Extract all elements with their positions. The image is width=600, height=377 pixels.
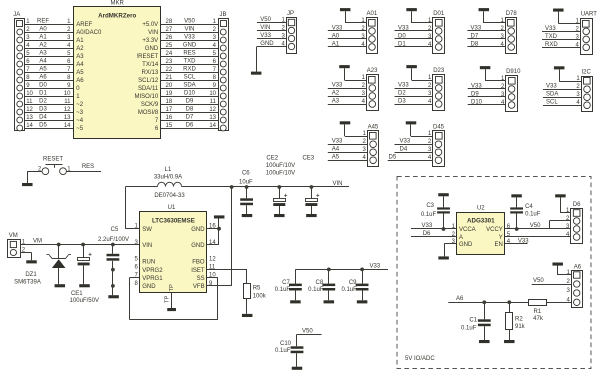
svg-text:A1: A1 bbox=[332, 41, 340, 47]
svg-text:SCL: SCL bbox=[546, 100, 558, 106]
svg-text:12: 12 bbox=[209, 107, 216, 113]
svg-text:D910: D910 bbox=[506, 69, 521, 75]
svg-text:91k: 91k bbox=[515, 324, 526, 330]
svg-text:D0: D0 bbox=[39, 82, 47, 88]
svg-text:D6: D6 bbox=[186, 122, 194, 128]
svg-text:RES: RES bbox=[82, 164, 94, 170]
svg-text:Y: Y bbox=[499, 235, 503, 241]
svg-text:10: 10 bbox=[26, 91, 33, 97]
svg-text:0.1uF: 0.1uF bbox=[275, 348, 291, 354]
svg-text:A23: A23 bbox=[367, 68, 378, 74]
svg-text:+5.0V: +5.0V bbox=[142, 22, 158, 28]
svg-text:A4: A4 bbox=[76, 62, 84, 68]
svg-text:RXD: RXD bbox=[183, 66, 196, 72]
svg-text:0.1uF: 0.1uF bbox=[461, 325, 477, 331]
svg-text:MISO/10: MISO/10 bbox=[135, 94, 159, 100]
svg-text:~2: ~2 bbox=[76, 102, 84, 108]
svg-text:+: + bbox=[316, 192, 320, 199]
svg-text:V33: V33 bbox=[400, 139, 411, 145]
svg-text:100k: 100k bbox=[253, 293, 267, 299]
svg-text:V33: V33 bbox=[332, 25, 343, 31]
svg-text:DE0704-33: DE0704-33 bbox=[154, 193, 185, 199]
svg-text:V50: V50 bbox=[184, 18, 195, 24]
svg-text:18: 18 bbox=[166, 99, 173, 105]
svg-text:V33: V33 bbox=[184, 34, 195, 40]
svg-text:V50: V50 bbox=[530, 223, 541, 229]
svg-text:SW: SW bbox=[142, 227, 152, 233]
svg-text:A0/DAC0: A0/DAC0 bbox=[76, 30, 102, 36]
svg-text:D4: D4 bbox=[39, 114, 47, 120]
svg-text:21: 21 bbox=[166, 75, 173, 81]
svg-text:C9: C9 bbox=[349, 280, 357, 286]
svg-text:100uF/50V: 100uF/50V bbox=[70, 298, 99, 304]
svg-text:22: 22 bbox=[166, 67, 173, 73]
svg-text:C1: C1 bbox=[469, 317, 477, 323]
svg-text:GND: GND bbox=[142, 284, 156, 290]
svg-text:VIN: VIN bbox=[148, 30, 158, 36]
svg-text:U2: U2 bbox=[477, 205, 485, 211]
svg-text:10: 10 bbox=[64, 91, 71, 97]
svg-text:0.1uF: 0.1uF bbox=[341, 287, 357, 293]
svg-text:JP: JP bbox=[287, 11, 294, 17]
svg-text:A5: A5 bbox=[332, 155, 340, 161]
svg-text:D10: D10 bbox=[471, 99, 483, 105]
svg-text:TX/14: TX/14 bbox=[142, 62, 159, 68]
svg-text:16: 16 bbox=[166, 115, 173, 121]
svg-text:SS: SS bbox=[197, 276, 205, 282]
svg-text:CE1: CE1 bbox=[71, 291, 83, 297]
svg-text:SM6T39A: SM6T39A bbox=[14, 279, 41, 285]
svg-text:VIN: VIN bbox=[184, 26, 194, 32]
svg-text:A4: A4 bbox=[332, 147, 340, 153]
svg-text:GND: GND bbox=[145, 46, 159, 52]
svg-text:VM: VM bbox=[9, 233, 18, 239]
svg-text:ADG3301: ADG3301 bbox=[467, 218, 495, 225]
svg-text:C4: C4 bbox=[525, 204, 533, 210]
svg-text:23: 23 bbox=[166, 59, 173, 65]
svg-text:GND: GND bbox=[459, 242, 473, 248]
svg-text:A3: A3 bbox=[76, 54, 84, 60]
svg-text:R2: R2 bbox=[515, 316, 523, 322]
svg-text:D8: D8 bbox=[186, 106, 194, 112]
svg-text:13: 13 bbox=[209, 115, 216, 121]
svg-text:D9: D9 bbox=[186, 98, 194, 104]
svg-text:GND: GND bbox=[183, 42, 197, 48]
svg-text:VPRG2: VPRG2 bbox=[142, 268, 163, 274]
svg-text:L1: L1 bbox=[165, 167, 172, 173]
svg-text:AREF: AREF bbox=[76, 22, 92, 28]
svg-text:C7: C7 bbox=[282, 280, 290, 286]
svg-text:11: 11 bbox=[26, 99, 33, 105]
svg-text:SCL: SCL bbox=[184, 74, 196, 80]
svg-text:JB: JB bbox=[220, 12, 227, 18]
svg-text:15: 15 bbox=[166, 123, 173, 129]
svg-text:C5: C5 bbox=[111, 227, 119, 233]
svg-text:GND: GND bbox=[191, 243, 205, 249]
svg-text:0.1uF: 0.1uF bbox=[421, 212, 437, 218]
svg-text:D6: D6 bbox=[573, 202, 581, 208]
svg-text:A: A bbox=[459, 235, 463, 241]
svg-text:R1: R1 bbox=[533, 309, 541, 315]
svg-text:LTC3630EMSE: LTC3630EMSE bbox=[152, 217, 195, 224]
svg-text:ArdMKRZero: ArdMKRZero bbox=[98, 13, 136, 20]
svg-text:~4: ~4 bbox=[76, 118, 84, 124]
svg-text:C3: C3 bbox=[426, 203, 434, 209]
svg-text:D5: D5 bbox=[389, 155, 397, 161]
svg-text:TP: TP bbox=[169, 284, 175, 292]
svg-text:D78: D78 bbox=[506, 11, 518, 17]
svg-text:A4: A4 bbox=[39, 58, 47, 64]
svg-text:D1: D1 bbox=[398, 41, 406, 47]
svg-text:A6: A6 bbox=[456, 296, 464, 302]
svg-text:D2: D2 bbox=[39, 98, 47, 104]
svg-text:0.1uF: 0.1uF bbox=[308, 287, 324, 293]
svg-text:13: 13 bbox=[26, 115, 33, 121]
svg-text:A2: A2 bbox=[76, 46, 84, 52]
svg-text:DZ1: DZ1 bbox=[25, 272, 37, 278]
svg-text:CE3: CE3 bbox=[302, 156, 314, 162]
svg-text:TXD: TXD bbox=[184, 58, 197, 64]
svg-text:+3.3V: +3.3V bbox=[142, 38, 158, 44]
svg-text:VPRG1: VPRG1 bbox=[142, 276, 163, 282]
svg-text:5V IO/ADC: 5V IO/ADC bbox=[405, 356, 435, 362]
svg-text:GND: GND bbox=[260, 41, 274, 47]
svg-text:A6: A6 bbox=[574, 265, 582, 271]
svg-text:A2: A2 bbox=[39, 42, 47, 48]
svg-text:RXD: RXD bbox=[545, 42, 558, 48]
svg-text:14: 14 bbox=[209, 123, 216, 129]
svg-text:A1: A1 bbox=[39, 34, 47, 40]
svg-text:D6: D6 bbox=[423, 231, 431, 237]
svg-text:D8: D8 bbox=[471, 41, 479, 47]
svg-text:A0: A0 bbox=[332, 33, 340, 39]
svg-text:~5: ~5 bbox=[76, 126, 84, 132]
svg-text:I2C: I2C bbox=[582, 69, 592, 75]
svg-text:V50: V50 bbox=[302, 328, 313, 334]
svg-text:11: 11 bbox=[210, 99, 217, 105]
svg-text:12: 12 bbox=[209, 257, 216, 263]
svg-text:V50: V50 bbox=[260, 17, 271, 23]
svg-text:ISET: ISET bbox=[191, 268, 205, 274]
svg-text:12: 12 bbox=[26, 107, 33, 113]
svg-text:C8: C8 bbox=[316, 280, 324, 286]
svg-text:0.1uF: 0.1uF bbox=[275, 287, 291, 293]
svg-text:VIN: VIN bbox=[333, 181, 343, 187]
svg-text:JA: JA bbox=[13, 12, 20, 18]
svg-text:V33: V33 bbox=[332, 139, 343, 145]
svg-text:D10: D10 bbox=[184, 90, 196, 96]
svg-text:A5: A5 bbox=[39, 66, 47, 72]
svg-text:14: 14 bbox=[64, 123, 71, 129]
svg-text:MKR: MKR bbox=[111, 1, 125, 7]
svg-text:V33: V33 bbox=[546, 84, 557, 90]
svg-text:!RESET: !RESET bbox=[137, 54, 159, 60]
svg-text:V33: V33 bbox=[471, 83, 482, 89]
svg-text:D1: D1 bbox=[39, 90, 47, 96]
svg-text:V33: V33 bbox=[471, 25, 482, 31]
svg-text:EN: EN bbox=[494, 242, 502, 248]
svg-text:V33: V33 bbox=[260, 33, 271, 39]
svg-text:SCK/9: SCK/9 bbox=[141, 102, 159, 108]
svg-text:R5: R5 bbox=[253, 285, 261, 291]
svg-text:D4: D4 bbox=[400, 147, 408, 153]
svg-text:SDA: SDA bbox=[546, 92, 558, 98]
svg-text:A6: A6 bbox=[39, 74, 47, 80]
svg-text:100uF/10V: 100uF/10V bbox=[266, 171, 295, 177]
svg-text:12: 12 bbox=[64, 107, 71, 113]
svg-text:V33: V33 bbox=[422, 223, 433, 229]
svg-text:D2: D2 bbox=[398, 90, 406, 96]
svg-text:14: 14 bbox=[26, 123, 33, 129]
svg-text:19: 19 bbox=[166, 91, 173, 97]
svg-text:~3: ~3 bbox=[76, 110, 84, 116]
svg-text:10uF: 10uF bbox=[239, 180, 253, 186]
svg-text:+: + bbox=[284, 192, 288, 199]
svg-text:V33: V33 bbox=[518, 239, 529, 245]
svg-text:A1: A1 bbox=[76, 38, 84, 44]
svg-text:D23: D23 bbox=[433, 68, 445, 74]
svg-text:A45: A45 bbox=[368, 124, 379, 130]
svg-text:FBO: FBO bbox=[192, 260, 205, 266]
svg-text:28: 28 bbox=[166, 19, 173, 25]
svg-text:A3: A3 bbox=[39, 50, 47, 56]
svg-text:RUN: RUN bbox=[142, 260, 155, 266]
svg-text:V33: V33 bbox=[545, 26, 556, 32]
svg-text:TXD: TXD bbox=[545, 34, 558, 40]
svg-text:D01: D01 bbox=[433, 11, 445, 17]
svg-text:17: 17 bbox=[166, 107, 173, 113]
svg-text:V33: V33 bbox=[332, 82, 343, 88]
svg-text:33uH/0.9A: 33uH/0.9A bbox=[154, 175, 182, 181]
svg-text:A01: A01 bbox=[367, 11, 378, 17]
svg-text:SDA: SDA bbox=[183, 82, 195, 88]
svg-text:GND: GND bbox=[191, 227, 205, 233]
svg-text:UART: UART bbox=[581, 12, 598, 18]
svg-text:10: 10 bbox=[209, 91, 216, 97]
svg-text:VCCA: VCCA bbox=[459, 227, 476, 233]
svg-text:RESET: RESET bbox=[43, 156, 63, 162]
svg-text:V50: V50 bbox=[533, 278, 544, 284]
svg-text:CE2: CE2 bbox=[266, 156, 278, 162]
svg-text:V33: V33 bbox=[398, 82, 409, 88]
svg-text:V33: V33 bbox=[398, 25, 409, 31]
svg-text:D9: D9 bbox=[471, 91, 479, 97]
svg-text:+: + bbox=[88, 252, 92, 259]
svg-text:SCL/12: SCL/12 bbox=[138, 78, 159, 84]
svg-text:D45: D45 bbox=[433, 124, 445, 130]
svg-text:D5: D5 bbox=[39, 122, 47, 128]
svg-text:11: 11 bbox=[64, 99, 71, 105]
svg-text:V33: V33 bbox=[370, 263, 381, 269]
svg-text:47k: 47k bbox=[533, 316, 544, 322]
svg-text:RES: RES bbox=[183, 50, 195, 56]
svg-text:2.2uF/100V: 2.2uF/100V bbox=[98, 237, 129, 243]
svg-text:A0: A0 bbox=[39, 26, 47, 32]
svg-text:13: 13 bbox=[64, 115, 71, 121]
svg-text:27: 27 bbox=[166, 27, 173, 33]
svg-text:25: 25 bbox=[166, 43, 173, 49]
svg-text:VFB: VFB bbox=[193, 284, 205, 290]
svg-text:26: 26 bbox=[166, 35, 173, 41]
svg-text:C10: C10 bbox=[280, 341, 292, 347]
svg-text:RX/13: RX/13 bbox=[142, 70, 159, 76]
svg-text:D3: D3 bbox=[398, 98, 406, 104]
svg-text:C6: C6 bbox=[242, 171, 250, 177]
svg-text:24: 24 bbox=[166, 51, 173, 57]
svg-text:D3: D3 bbox=[39, 106, 47, 112]
svg-text:100uF/10V: 100uF/10V bbox=[266, 163, 295, 169]
svg-text:TP: TP bbox=[165, 295, 171, 303]
svg-text:VM: VM bbox=[33, 238, 42, 244]
svg-text:A2: A2 bbox=[332, 90, 340, 96]
svg-text:REF: REF bbox=[37, 18, 49, 24]
svg-text:VCCY: VCCY bbox=[486, 227, 503, 233]
svg-text:A5: A5 bbox=[76, 70, 84, 76]
svg-text:20: 20 bbox=[166, 83, 173, 89]
svg-text:D0: D0 bbox=[398, 33, 406, 39]
svg-text:D7: D7 bbox=[186, 114, 194, 120]
svg-text:MOSI/8: MOSI/8 bbox=[138, 110, 159, 116]
svg-text:U1: U1 bbox=[168, 205, 176, 211]
svg-text:A6: A6 bbox=[76, 78, 84, 84]
svg-text:A3: A3 bbox=[332, 98, 340, 104]
svg-text:D7: D7 bbox=[471, 33, 479, 39]
svg-text:VIN: VIN bbox=[260, 25, 270, 31]
svg-text:0.1uF: 0.1uF bbox=[525, 212, 541, 218]
svg-text:VIN: VIN bbox=[142, 243, 152, 249]
svg-text:SDA/11: SDA/11 bbox=[138, 86, 159, 92]
